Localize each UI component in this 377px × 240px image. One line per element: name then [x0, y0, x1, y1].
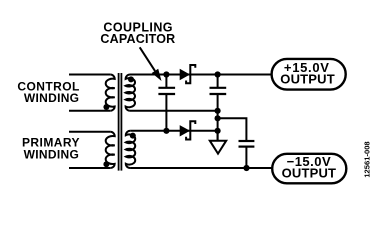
- svg-text:OUTPUT: OUTPUT: [280, 72, 335, 87]
- polarity dot control winding: [103, 104, 109, 110]
- coupling capacitor C1: [158, 75, 175, 131]
- wire branch to C3: [218, 118, 247, 140]
- junction dot diode D2 cathode / rail: [215, 128, 221, 134]
- transformer T1 primary winding coil: [106, 132, 115, 168]
- polarity dot secondary bottom: [130, 133, 136, 139]
- polarity dot secondary top: [128, 76, 134, 82]
- ground: [210, 131, 226, 154]
- transformer T1 secondary winding top: [126, 75, 135, 111]
- junction dot branch / rail: [215, 115, 221, 121]
- wire primary winding top: [69, 131, 110, 133]
- wire top rail to +15V output: [130, 74, 271, 76]
- leader arrow to coupling capacitor: [140, 47, 162, 81]
- svg-text:WINDING: WINDING: [24, 91, 79, 105]
- filter capacitor C3 (-15V): [239, 141, 255, 168]
- -15.0V OUTPUT oval: [272, 154, 346, 184]
- svg-text:CAPACITOR: CAPACITOR: [100, 32, 175, 46]
- label COUPLING CAPACITOR: [100, 20, 175, 46]
- svg-text:OUTPUT: OUTPUT: [282, 165, 337, 180]
- junction dot mid wire / rail: [215, 108, 221, 114]
- +15.0V OUTPUT oval: [272, 59, 346, 90]
- schottky diode D2: [180, 121, 196, 139]
- wire secondary bottom top lead: [130, 130, 217, 132]
- wire secondary top return (mid wire): [130, 110, 218, 112]
- junction dot node A (coupling cap / top rail): [163, 71, 169, 77]
- transformer T1 control winding coil: [106, 75, 115, 111]
- label CONTROL WINDING: [17, 80, 79, 106]
- transformer T1 secondary winding bottom: [126, 131, 135, 168]
- label PRIMARY WINDING: [22, 136, 80, 162]
- wire control winding top: [69, 74, 110, 76]
- junction dot C3 / bottom rail: [243, 165, 249, 171]
- svg-text:12561-008: 12561-008: [362, 141, 371, 177]
- polarity dot primary winding: [103, 161, 109, 167]
- schottky diode D1: [180, 65, 196, 83]
- filter capacitor C2 (+15V): [210, 75, 227, 141]
- wire primary winding bottom: [69, 167, 110, 169]
- transformer core: [119, 73, 122, 171]
- junction dot coupling cap bottom: [163, 128, 169, 134]
- wire bottom rail to -15V output: [130, 167, 272, 169]
- svg-text:WINDING: WINDING: [24, 147, 79, 161]
- junction dot +15V rail: [215, 71, 221, 77]
- wire control winding bottom: [69, 110, 110, 112]
